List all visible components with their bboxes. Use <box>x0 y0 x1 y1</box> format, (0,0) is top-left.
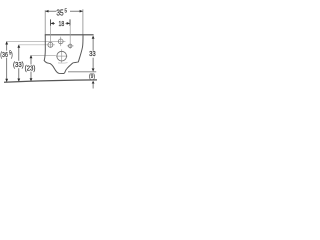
left dim (23) up arrow <box>30 55 33 58</box>
svg-text:33: 33 <box>89 51 96 59</box>
fixing hole D circle <box>68 44 72 48</box>
dimension 35.5 extension line right <box>82 9 84 35</box>
extension line at inlet height y41.4 merging into hole B crosshair <box>7 40 66 42</box>
outlet hole E crosshair horizontal <box>56 55 67 57</box>
left dim (23) down arrow <box>30 78 33 81</box>
dimension 35.5 line <box>45 10 56 12</box>
dimension 35.5 extension line left <box>44 10 46 35</box>
inlet hole B circle <box>58 39 63 44</box>
left dim (36.5) up arrow <box>5 41 8 44</box>
left dim (33) vertical line <box>18 45 20 61</box>
dimension 18 right arrow <box>67 22 70 25</box>
floor line <box>4 80 97 82</box>
svg-text:5: 5 <box>65 8 68 15</box>
left dim (33) up arrow <box>17 45 20 48</box>
outlet hole E crosshair vertical <box>61 49 63 62</box>
svg-text:(9): (9) <box>89 73 95 80</box>
left dim (36.5) down arrow <box>5 79 8 82</box>
fixing hole D crosshair horizontal <box>67 45 74 47</box>
svg-text:): ) <box>11 51 13 59</box>
right dim 33/(9) vertical line <box>92 39 94 51</box>
extension line at outlet height y55.4 <box>31 54 56 56</box>
left dim (23) vertical line <box>30 55 32 64</box>
left dim (33) down arrow <box>17 79 20 82</box>
dimension 18 extension bar right <box>69 19 71 26</box>
ceramic bottom extension line y72 <box>68 71 96 73</box>
dimension 18 extension bar left <box>50 19 52 26</box>
fixing hole A crosshair vertical / 18 extension <box>50 25 52 48</box>
inner bowl faint bottom arc <box>58 62 68 64</box>
left dim (36.5) vertical line <box>6 41 8 50</box>
svg-text:18: 18 <box>59 20 65 28</box>
dimension 18 line + arrows <box>51 22 56 24</box>
(9) bottom up arrow <box>92 81 95 84</box>
svg-text:(33): (33) <box>13 62 24 70</box>
inlet hole B crosshair vertical <box>60 37 62 46</box>
extension line at fixing height y44.8 merging into hole A crosshair <box>19 44 55 46</box>
outlet hole E circle <box>57 51 67 61</box>
dimension 35.5 right arrow <box>80 10 83 13</box>
dimension 35.5 left arrow <box>45 10 48 13</box>
right dim 33 down arrow <box>92 68 95 71</box>
svg-text:(36: (36 <box>0 51 8 59</box>
right dim 33 up arrow <box>92 36 95 39</box>
fixing hole A circle <box>48 42 53 47</box>
dimension 18 left arrow <box>51 22 54 25</box>
urinal top (wall) edge <box>45 34 94 36</box>
svg-text:35: 35 <box>56 8 63 18</box>
fixing hole D crosshair vertical / 18 extension <box>69 25 71 49</box>
svg-text:(23): (23) <box>25 65 36 73</box>
urinal body outline (view from below) <box>44 35 83 74</box>
